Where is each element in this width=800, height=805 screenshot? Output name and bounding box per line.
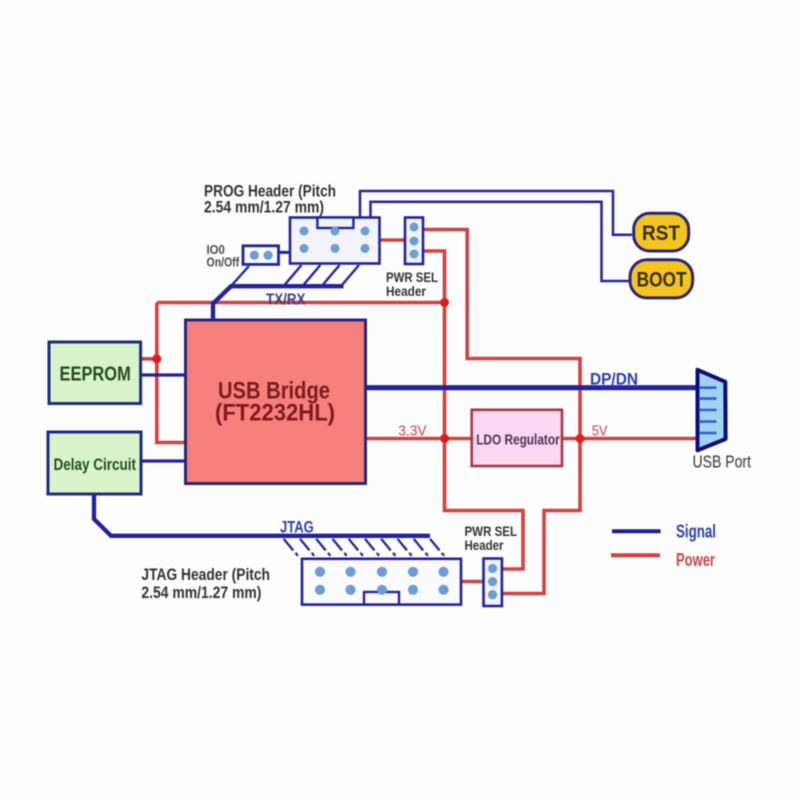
- svg-text:BOOT: BOOT: [637, 269, 687, 292]
- svg-text:USB Port: USB Port: [693, 452, 752, 472]
- svg-text:Header: Header: [386, 283, 426, 299]
- svg-text:EEPROM: EEPROM: [60, 364, 131, 386]
- svg-text:Power: Power: [676, 550, 715, 570]
- svg-text:RST: RST: [642, 222, 680, 245]
- svg-text:Signal: Signal: [676, 522, 716, 542]
- svg-text:3.3V: 3.3V: [398, 423, 426, 440]
- svg-text:2.54 mm/1.27 mm): 2.54 mm/1.27 mm): [141, 583, 261, 602]
- svg-text:LDO Regulator: LDO Regulator: [476, 432, 560, 449]
- svg-text:Header: Header: [465, 537, 504, 553]
- svg-text:Delay Circuit: Delay Circuit: [54, 455, 137, 474]
- svg-text:(FT2232HL): (FT2232HL): [215, 400, 335, 427]
- svg-text:TX/RX: TX/RX: [266, 292, 306, 309]
- svg-text:2.54 mm/1.27 mm): 2.54 mm/1.27 mm): [204, 198, 324, 217]
- svg-text:On/Off: On/Off: [207, 255, 240, 269]
- svg-text:5V: 5V: [592, 423, 608, 440]
- svg-text:DP/DN: DP/DN: [590, 370, 638, 389]
- svg-text:JTAG: JTAG: [280, 519, 314, 537]
- svg-text:JTAG Header (Pitch: JTAG Header (Pitch: [141, 565, 270, 584]
